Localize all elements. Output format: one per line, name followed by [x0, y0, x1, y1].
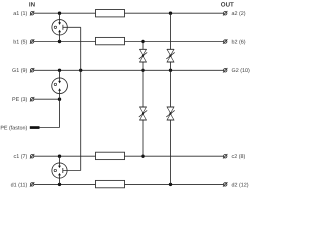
svg-text:d2 (12): d2 (12): [232, 182, 249, 188]
wire d1 input: [34, 183, 96, 185]
wire a1 input: [34, 12, 96, 14]
terminal c2 pin 8: [223, 154, 227, 158]
svg-text:PE (3): PE (3): [12, 97, 27, 103]
terminal b2 pin 6: [223, 39, 227, 43]
wire c2 output: [125, 155, 224, 157]
node b1/GDT junction: [58, 40, 61, 43]
terminal a1 pin 1: [30, 11, 34, 15]
terminal d1 pin 11: [30, 182, 34, 186]
svg-text:OUT: OUT: [221, 2, 234, 9]
svg-text:IN: IN: [29, 1, 36, 8]
svg-text:G1 (9): G1 (9): [12, 68, 27, 74]
gas discharge tube F1 (a1-b1, 3-electrode): [52, 20, 67, 35]
terminal PE faston tab: [30, 126, 40, 129]
wire faston horizontal: [40, 127, 60, 129]
wire GDT2 top lead: [59, 70, 61, 78]
terminal a2 pin 2: [223, 11, 227, 15]
wire d2 output: [125, 183, 224, 185]
wire GDT3 centre electrode to arrester bus: [63, 170, 81, 172]
wire b1 input: [34, 41, 96, 43]
node d1/GDT junction: [58, 183, 61, 186]
wire G bus: [34, 69, 223, 71]
wire GDT1 top lead: [59, 13, 61, 20]
wire diode D1 lower lead: [142, 62, 144, 70]
resistor R1 (a line): [96, 10, 125, 17]
wire diode column b upper lead: [142, 42, 144, 50]
node b2/diode junction: [141, 40, 144, 43]
wire c1 input: [34, 155, 96, 157]
node G/diode-b junction: [141, 69, 144, 72]
wire b2 output: [125, 41, 224, 43]
node a2/diode junction: [169, 12, 172, 15]
node c2/diode junction: [141, 155, 144, 158]
svg-text:a2 (2): a2 (2): [232, 11, 246, 17]
node G/arrester-bus junction: [79, 69, 82, 72]
wire GDT3 top lead: [59, 156, 61, 163]
svg-text:G2 (10): G2 (10): [232, 68, 250, 74]
terminal c1 pin 7: [30, 154, 34, 158]
wire diode column a middle lead: [170, 70, 172, 107]
node G/GDT2 junction: [58, 69, 61, 72]
suppressor diode D3 (G-c): [139, 107, 147, 120]
suppressor diode D4 (G-d): [166, 107, 174, 120]
wire GDT1 bottom lead: [59, 35, 61, 42]
svg-text:b1 (5): b1 (5): [13, 39, 27, 45]
gas discharge tube F2 (G-PE, 2-electrode): [52, 78, 68, 94]
node G/diode-a junction: [169, 69, 172, 72]
node c1/GDT junction: [58, 155, 61, 158]
node PE junction: [58, 98, 61, 101]
wire GDT2 bottom lead: [59, 94, 61, 100]
svg-text:b2 (6): b2 (6): [232, 39, 246, 45]
resistor R4 (d line): [96, 180, 125, 187]
wire arrester bus vertical: [80, 27, 82, 170]
svg-text:c1 (7): c1 (7): [14, 154, 28, 160]
wire diode column b lower lead: [142, 120, 144, 156]
gas discharge tube F3 (c1-d1, 3-electrode): [52, 163, 67, 178]
wire diode D2 lower lead: [170, 62, 172, 70]
terminal d2 pin 12: [223, 182, 227, 186]
terminal G2 pin 10: [223, 68, 227, 72]
wire faston riser: [59, 99, 61, 127]
wire PE input: [34, 98, 60, 100]
svg-text:c2 (8): c2 (8): [232, 154, 246, 160]
terminal G1 pin 9: [30, 68, 34, 72]
wire diode column a lower lead: [170, 120, 172, 184]
resistor R2 (b line): [96, 37, 125, 44]
suppressor diode D2 (a-G): [166, 49, 174, 62]
resistor R3 (c line): [96, 152, 125, 159]
svg-text:PE (faston): PE (faston): [0, 125, 27, 131]
svg-text:a1 (1): a1 (1): [13, 11, 27, 17]
node d2/diode junction: [169, 183, 172, 186]
terminal PE pin 3: [30, 97, 34, 101]
terminal b1 pin 5: [30, 39, 34, 43]
wire GDT1 centre electrode to arrester bus: [63, 26, 81, 28]
wire a2 output: [125, 12, 224, 14]
wire diode column a upper lead: [170, 13, 172, 49]
wire GDT3 bottom lead: [59, 178, 61, 184]
suppressor diode D1 (b-G): [139, 49, 147, 62]
wire diode column b middle lead: [142, 70, 144, 107]
svg-text:d1 (11): d1 (11): [11, 182, 28, 188]
node a1/GDT junction: [58, 12, 61, 15]
